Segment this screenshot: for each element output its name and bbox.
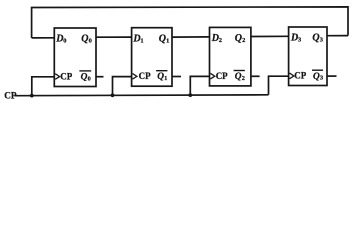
svg-text:1: 1 <box>140 37 143 44</box>
pin label D1 <box>132 33 143 44</box>
svg-text:D: D <box>290 33 298 44</box>
pin label D2 <box>211 33 222 44</box>
flip-flop FF4 box <box>289 27 327 86</box>
svg-text:D: D <box>211 33 219 44</box>
svg-text:Q: Q <box>235 33 242 44</box>
svg-text:CP: CP <box>294 71 306 81</box>
pin label CP (FF3) <box>216 71 228 81</box>
pin label D3 <box>290 33 301 44</box>
pin label Q1-bar <box>156 71 167 83</box>
pin label Q3 <box>312 33 323 44</box>
svg-text:Q: Q <box>159 33 166 44</box>
pin label Q1 <box>159 33 170 44</box>
svg-text:D: D <box>55 34 63 45</box>
svg-text:3: 3 <box>298 37 301 44</box>
pin label CP (FF4) <box>294 71 306 81</box>
flip-flop FF1 box <box>54 28 96 87</box>
svg-text:D: D <box>132 33 140 44</box>
svg-text:3: 3 <box>320 75 323 82</box>
pin label Q0-bar <box>79 71 91 83</box>
svg-text:2: 2 <box>242 75 245 82</box>
wire feedback top (Q3 around to D0) <box>32 7 348 38</box>
svg-text:0: 0 <box>89 38 92 45</box>
wire CP branch to FF1 <box>32 77 55 96</box>
pin label CP (FF2) <box>139 71 151 81</box>
pin label Q2 <box>235 33 246 44</box>
junction at FF1 clock branch <box>30 94 34 98</box>
wire CP branch to FF4 <box>269 76 289 95</box>
wire feedback into D0 <box>32 37 55 39</box>
wire Q2-bar stub <box>251 75 260 77</box>
svg-text:Q: Q <box>81 72 88 82</box>
junction at FF2 clock branch <box>111 93 115 97</box>
svg-text:Q: Q <box>157 72 164 82</box>
wire CP branch to FF3 <box>190 76 209 95</box>
flip-flop FF2 box <box>132 28 172 86</box>
flip-flop FF3 box <box>210 27 251 86</box>
pin label Q2-bar <box>234 71 245 83</box>
svg-text:Q: Q <box>81 34 88 45</box>
wire Q1 to D2 <box>172 36 210 38</box>
clock triangle FF1 <box>55 74 59 80</box>
svg-text:2: 2 <box>219 37 222 44</box>
wire Q0-bar stub <box>96 76 104 78</box>
clock triangle FF2 <box>133 74 137 80</box>
wire CP bus <box>15 94 269 97</box>
svg-text:1: 1 <box>164 75 167 82</box>
svg-text:1: 1 <box>166 37 169 44</box>
svg-text:0: 0 <box>63 38 66 45</box>
wire Q1-bar stub <box>172 76 181 78</box>
svg-text:0: 0 <box>88 75 91 82</box>
wire Q0 to D1 <box>96 36 132 38</box>
pin label Q3-bar <box>312 70 323 82</box>
wire CP branch to FF2 <box>113 77 132 96</box>
net label CP <box>4 91 17 101</box>
clock triangle FF3 <box>210 73 214 79</box>
pin label D0 <box>55 34 66 45</box>
svg-text:CP: CP <box>216 71 228 81</box>
svg-text:3: 3 <box>320 37 323 44</box>
pin label CP (FF1) <box>60 71 72 81</box>
junction at FF3 clock branch <box>188 93 192 97</box>
svg-text:Q: Q <box>313 72 320 82</box>
wire Q3 to feedback riser <box>327 35 348 37</box>
wire Q3-bar stub <box>327 75 337 77</box>
wire Q2 to D3 <box>251 35 289 37</box>
pin label Q0 <box>81 34 92 45</box>
svg-text:CP: CP <box>60 71 72 81</box>
svg-text:Q: Q <box>312 33 319 44</box>
svg-text:2: 2 <box>242 37 245 44</box>
clock triangle FF4 <box>290 73 294 79</box>
svg-text:Q: Q <box>235 72 242 82</box>
svg-text:CP: CP <box>139 71 151 81</box>
